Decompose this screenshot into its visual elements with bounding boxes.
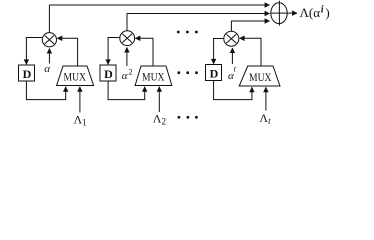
multiplier M3 (circle with X): [224, 31, 239, 46]
svg-text:D: D: [104, 67, 113, 81]
wire: multiplier M2 output up to bus 2, right to adder: [127, 14, 270, 31]
svg-text:α: α: [44, 63, 50, 75]
wire: alpha constant arrow into M1 bottom: [48, 49, 50, 64]
register D1: [19, 65, 35, 81]
wire: Lambda1 input into MUX1 right input: [79, 87, 81, 113]
wire: multiplier M1 output left, down into D1: [26, 38, 42, 65]
wire: alpha^t constant arrow into M3 bottom: [231, 48, 233, 64]
register D3: [206, 65, 222, 81]
svg-text:Λ2: Λ2: [153, 112, 166, 127]
svg-text:Λt: Λt: [259, 111, 271, 126]
dots row middle: [177, 71, 198, 74]
dots row bottom (between Lambda2 and Lambda_t): [178, 116, 198, 119]
wire: MUX2 output up and left into M2 right side: [135, 38, 153, 66]
wire: multiplier M3 output left, down into D3: [214, 39, 224, 64]
multiplier M1 (circle with X): [42, 33, 56, 47]
mux MUX2: [135, 66, 172, 86]
wire: multiplier M1 output up to top bus, right to adder: [49, 5, 269, 33]
svg-text:Λ1: Λ1: [74, 113, 87, 128]
wire: multiplier M3 output up to bus 3, right to adder: [231, 21, 269, 31]
wire: MUX1 output up and left into M1 right side: [57, 38, 77, 66]
svg-text:D: D: [23, 67, 32, 81]
wire: D1 output loop to MUX1 left input: [26, 81, 65, 100]
wire: alpha^2 constant arrow into M2 bottom: [126, 48, 128, 67]
wire: MUX3 output up and left into M3 right side: [240, 38, 261, 66]
svg-text:2: 2: [128, 67, 132, 77]
svg-text:MUX: MUX: [64, 70, 87, 84]
multiplier M2 (circle with X): [120, 31, 135, 46]
adder A1 (ellipse with plus cross): [271, 3, 287, 24]
svg-text:D: D: [210, 66, 219, 80]
wire: D3 output loop to MUX3 left input: [214, 81, 252, 100]
svg-text:t: t: [234, 64, 237, 74]
register D2: [100, 65, 116, 81]
wire: adder output arrow: [287, 12, 297, 14]
wire: Lambda2 input into MUX2 right input: [158, 87, 160, 112]
mux MUX3: [239, 66, 280, 86]
wire: D2 output loop to MUX2 left input: [108, 81, 145, 100]
dots row top (between unit 2 and 3): [177, 31, 198, 34]
wire: Lambda_t input into MUX3 right input: [265, 87, 267, 110]
svg-text:MUX: MUX: [142, 70, 165, 84]
svg-text:α: α: [122, 70, 128, 82]
svg-text:Λ(αi): Λ(αi): [300, 5, 330, 21]
wire: multiplier M2 output left, down into D2: [108, 38, 120, 65]
mux MUX1: [57, 66, 94, 86]
svg-text:MUX: MUX: [249, 70, 272, 84]
